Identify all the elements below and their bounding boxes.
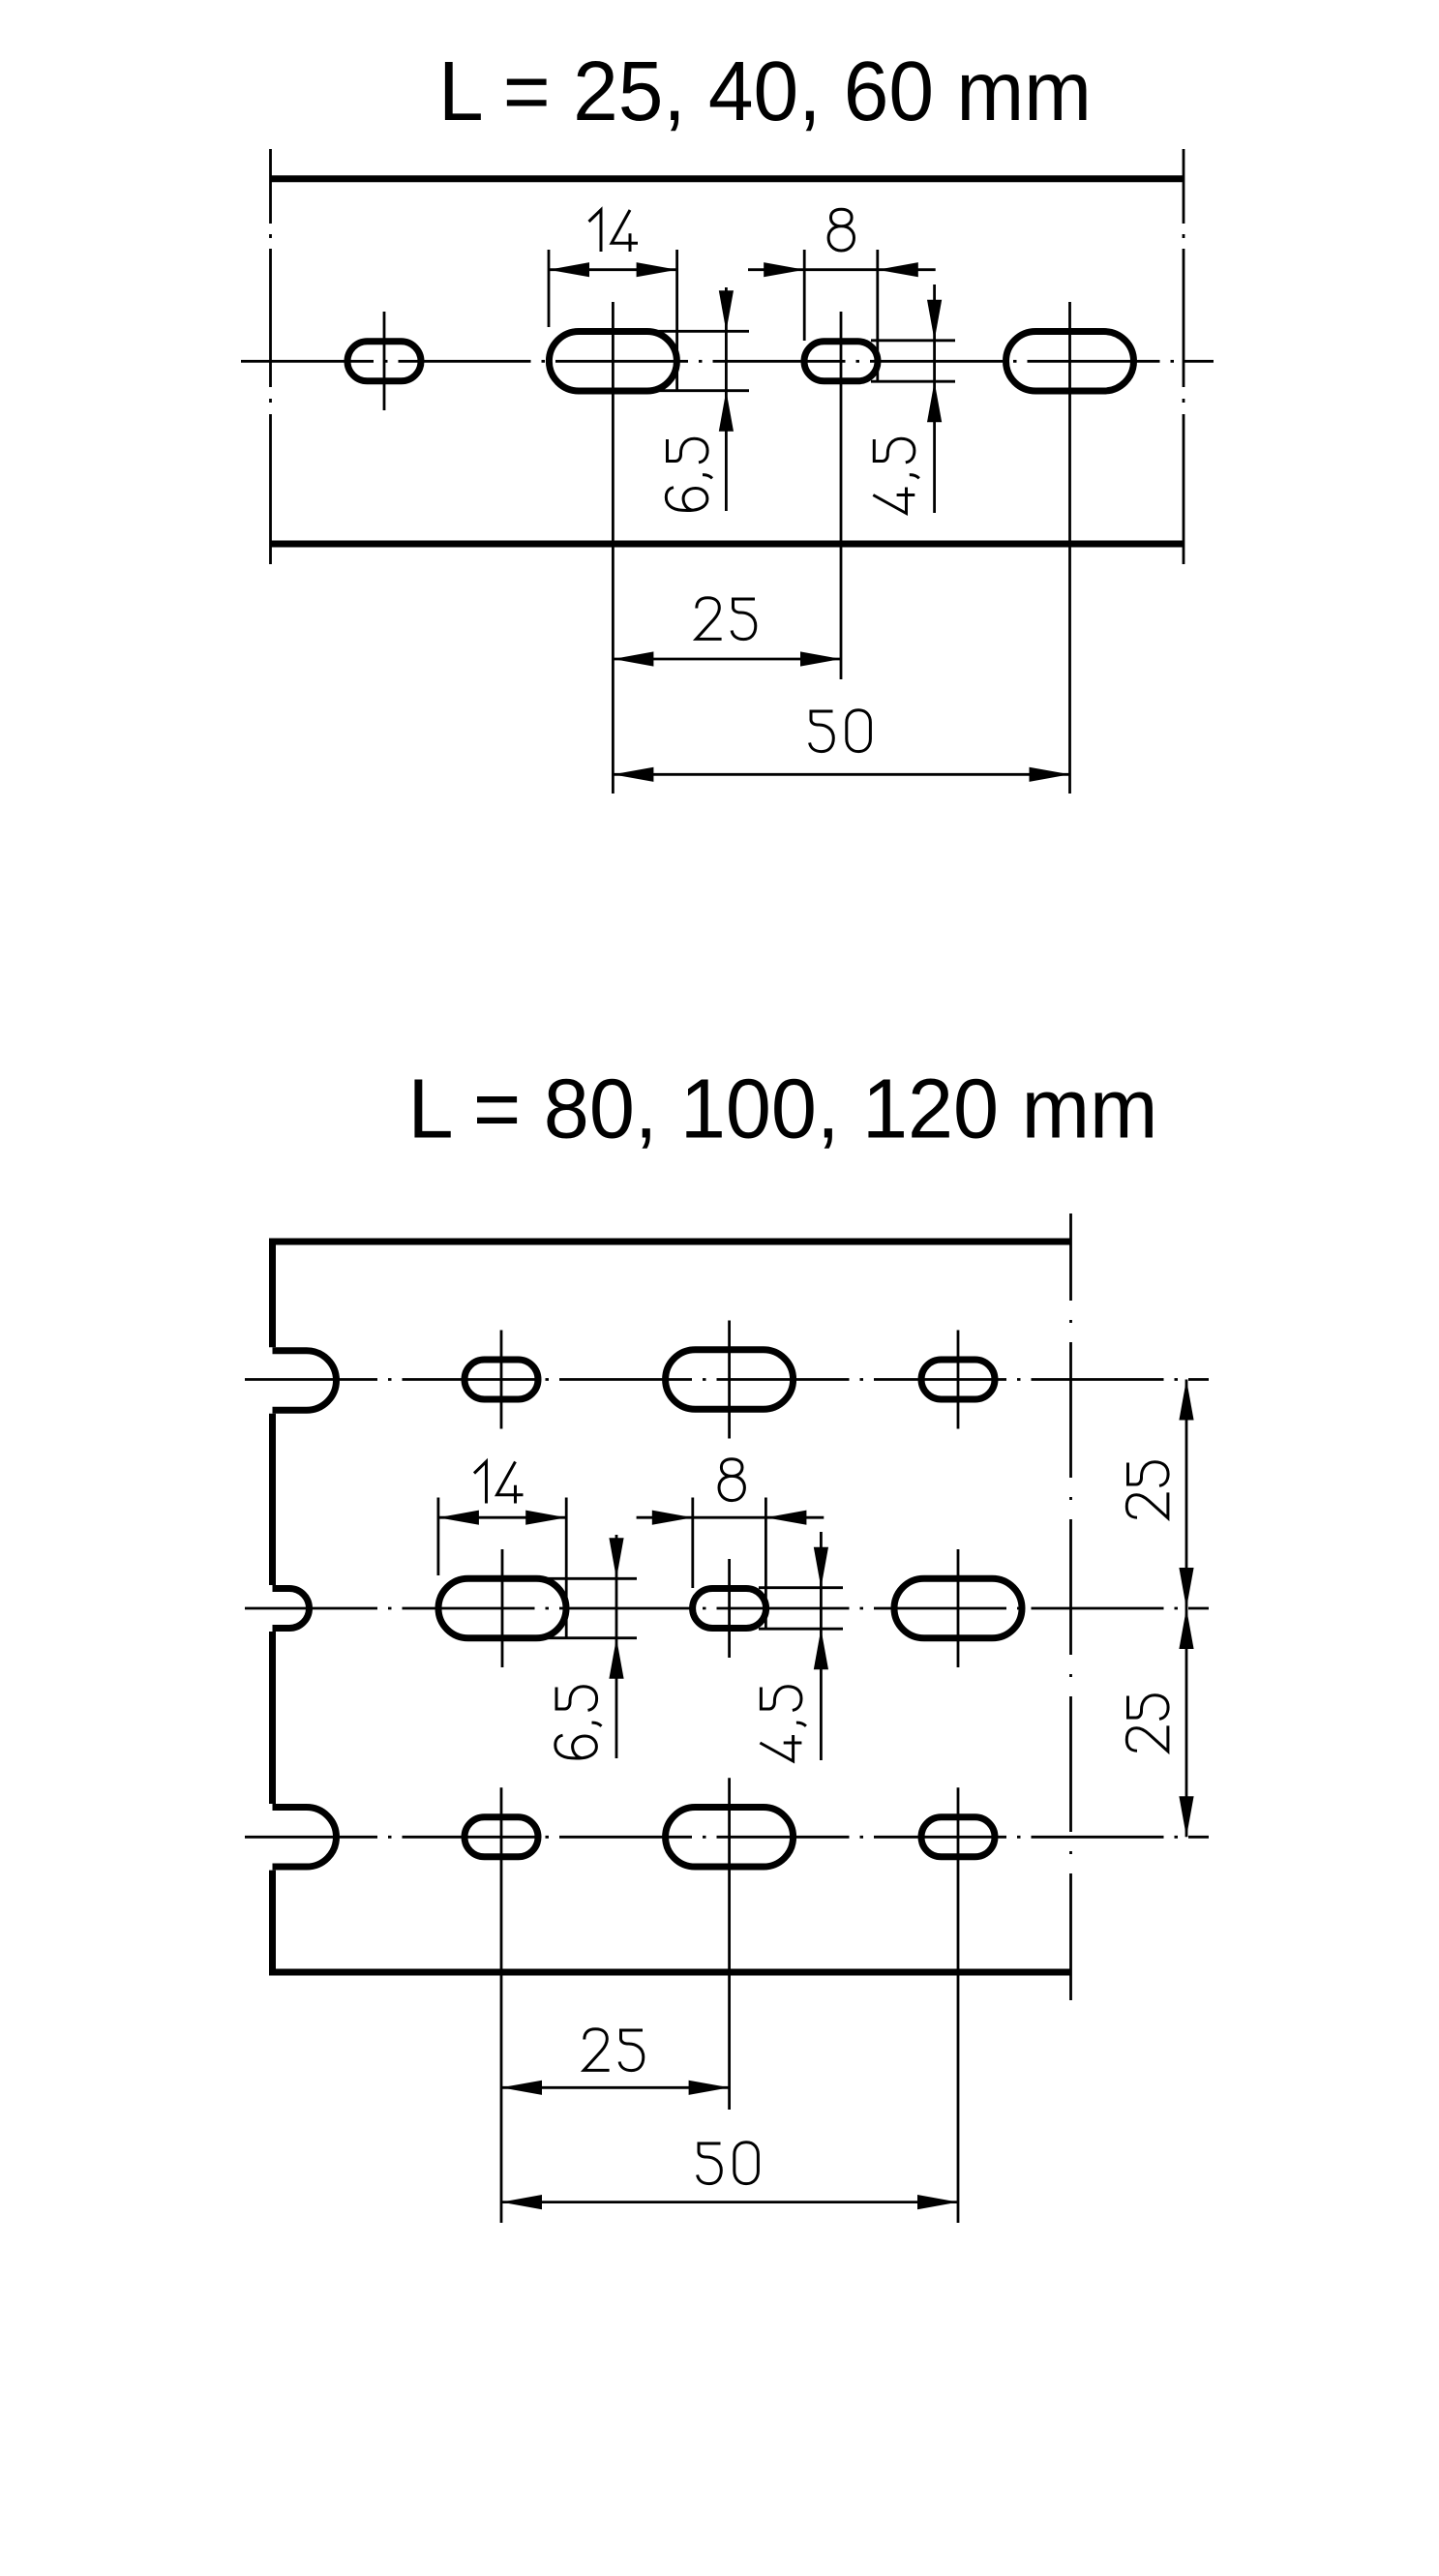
dim 8: extension lines: [803, 250, 806, 341]
small slot 1: [347, 342, 421, 381]
dim 6,5: text (rotated): [666, 438, 712, 510]
dim 14 (bottom fig): extension lines: [436, 1498, 439, 1576]
dim 25 (below plate): dimension line: [501, 2086, 730, 2089]
row centerline: [241, 360, 1214, 363]
crosshair large slot 2 / extension to dim 50: [1068, 302, 1071, 794]
plate left edge segments: [269, 1239, 276, 1348]
dim 50 (below strip): dimension line: [613, 773, 1069, 776]
dim 4,5: text (rotated): [760, 1687, 806, 1761]
dim 14: text: [589, 210, 639, 252]
right boundary centerline: [1069, 1213, 1072, 2000]
dim 25: text: [696, 598, 756, 640]
row 2 slots: [438, 1578, 566, 1638]
dim 8: text: [719, 1459, 744, 1501]
dim 6,5: extension lines: [654, 330, 749, 333]
dim 25 vertical (right side): dimension line: [1185, 1380, 1188, 1838]
large slot 1: [549, 332, 676, 392]
dim 14: dimension line: [438, 1516, 566, 1519]
half large slot row 3: [273, 1808, 337, 1868]
large slot 2: [1006, 332, 1134, 392]
dim 8: dimension line with tails: [748, 268, 936, 271]
plate bottom edge: [273, 1969, 1071, 1976]
plate top edge: [273, 1239, 1071, 1245]
small slot 2: [804, 342, 878, 381]
svg-text:L = 80, 100, 120 mm: L = 80, 100, 120 mm: [408, 1063, 1158, 1156]
dim 4,5: dimension line: [820, 1532, 823, 1760]
dim 8 (bottom fig): extension lines: [691, 1498, 694, 1589]
dim 8: text: [828, 209, 854, 251]
dim 4,5 (bottom fig): extension lines: [759, 1586, 843, 1589]
row 1 crosshairs: [500, 1331, 503, 1429]
left boundary centerline: [269, 149, 272, 564]
row 2 crosshairs: [501, 1549, 504, 1667]
strip bottom edge: [270, 541, 1184, 548]
crosshair small slot 1: [383, 312, 386, 410]
dim 4,5: dimension line: [933, 285, 936, 513]
dim 6,5 (bottom fig): extension lines: [542, 1577, 637, 1580]
dim 50 (below plate): dimension line: [501, 2201, 958, 2203]
dim 4,5: extension lines: [871, 339, 955, 342]
dim 25 below: text: [584, 2029, 644, 2071]
dim 14: dimension line: [549, 268, 677, 271]
dim 14: extension lines: [548, 250, 551, 327]
dim 25 (below strip): dimension line: [613, 658, 841, 661]
dim 4,5: text (rotated): [873, 438, 919, 513]
right boundary centerline: [1183, 149, 1185, 564]
row 3 slots: [465, 1817, 538, 1857]
row 3 centerline: [245, 1836, 1209, 1839]
dim 6,5: text (rotated): [555, 1687, 602, 1758]
row 1 centerline: [245, 1378, 1209, 1381]
crosshair large slot 1 / extension to dims 25+50: [612, 302, 615, 794]
dim 6,5: dimension line: [615, 1535, 618, 1758]
dim 50: text: [810, 710, 871, 752]
dim 25 vertical lower: text (rotated): [1126, 1695, 1168, 1752]
dim 8: dimension line with tails: [637, 1516, 824, 1519]
row 1 slots: [465, 1360, 538, 1399]
dim 50 below: text: [698, 2142, 759, 2184]
half large slot row 1: [273, 1351, 337, 1411]
row 3 crosshairs + extensions to bottom dims: [500, 1787, 503, 2223]
dim 14: text: [474, 1461, 524, 1503]
dim 6,5: dimension line: [725, 287, 728, 511]
row 2 centerline: [245, 1607, 1209, 1610]
dim 25 vertical upper: text (rotated): [1126, 1462, 1168, 1518]
strip top edge: [270, 175, 1184, 182]
crosshair small slot 2 / extension to dim 25: [840, 312, 843, 679]
half small slot row 2: [273, 1589, 310, 1629]
svg-text:L = 25, 40, 60 mm: L = 25, 40, 60 mm: [438, 45, 1092, 138]
